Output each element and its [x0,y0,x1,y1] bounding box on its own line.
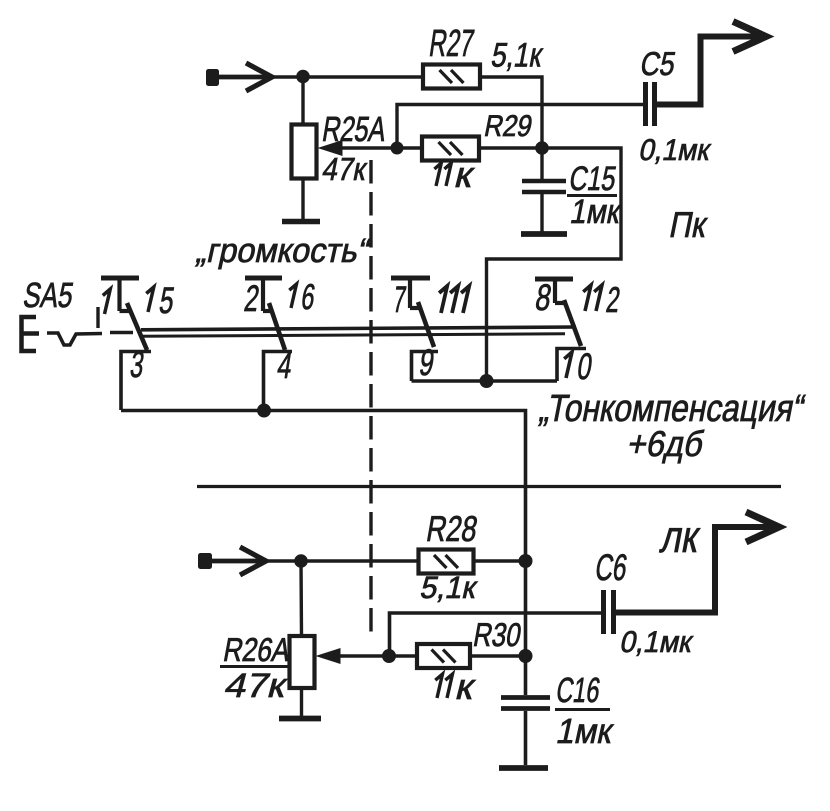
wire C15 bottom [540,194,543,232]
mechanical link dash (to contact 1) [96,307,99,328]
node R28/vertical bus junction [519,554,533,568]
node R27/R29/C15 junction [535,141,549,155]
separator line between channels [197,485,781,488]
svg-text:C6: C6 [593,546,630,588]
wire C6 right, up, to output [616,527,779,613]
wire input to junction (left) [204,559,266,564]
wire R26A top (junction to pot) [299,561,303,636]
ground (R26A) [279,716,321,722]
label 10 [564,352,572,378]
node junction input/R25A/R27 [296,70,310,84]
capacitor C5 [646,82,655,126]
svg-text:1мк: 1мк [553,712,617,751]
svg-text:+6дб: +6дб [624,425,707,464]
wire C5 right, up, to output [657,37,766,105]
input arrow (left channel) [240,547,266,575]
wire R25A bottom to ground [301,178,304,220]
wire wiper to junction (left) [339,654,389,657]
wire step terminal 4 [264,352,293,411]
capacitor C6 [604,590,614,634]
wire step terminal 3 [121,352,151,411]
capacitor C16 [501,698,550,709]
svg-text:47к: 47к [221,667,292,705]
node R30/vertical bus junction [519,649,533,663]
label underline C15 [567,194,617,197]
wire C16 bottom [524,711,528,765]
wire loop from node to switch contact 8 branch [487,148,622,381]
switch SA5 actuator symbol [22,317,134,351]
capacitor C15 [522,181,566,192]
wire bottom bus contacts 9-10 [412,379,558,383]
switch contact 1 (fixed) [101,278,139,311]
svg-text:R27: R27 [427,22,477,65]
wire R25A top (junction to pot) [301,77,304,125]
svg-text:R28: R28 [424,509,481,549]
wire R27 right, corner down to R29 node [480,77,542,148]
label 1 [103,289,111,314]
output arrow (left channel) [746,512,779,542]
wire junction to R28 [301,559,419,562]
label 15 [146,287,154,312]
wire R30 right to node [470,654,526,657]
svg-text:C16: C16 [554,672,603,710]
svg-text:C5: C5 [638,47,679,83]
svg-text:1мк: 1мк [568,192,625,230]
svg-text:47к: 47к [320,153,371,188]
label 11k (R30 value) [435,674,442,698]
switch contact 2 (fixed) [245,278,282,311]
svg-text:R30: R30 [471,617,525,653]
label 111 [439,286,447,313]
potentiometer R26A [290,636,315,688]
svg-text:R25A: R25A [320,109,390,149]
switch contact 2 blade [269,303,285,350]
resistor R27 [423,65,480,89]
output arrow (right channel) [733,22,766,52]
svg-text:5,1к: 5,1к [489,36,546,74]
svg-text:R29: R29 [482,108,536,142]
wire input to junction [212,75,272,80]
resistor R30 [417,644,470,668]
switch contact 7 blade [418,302,434,347]
label 112 [583,285,591,311]
wire rail upper (switch common) [141,327,576,330]
wire junction up and right to C6 [390,613,602,656]
wire vertical bus down to C16 [524,561,528,695]
ground (C15) [521,231,567,237]
dashed gang line (stereo pot coupling) [369,160,372,640]
label 16 [289,284,296,308]
wire node to C15 [540,148,543,179]
potentiometer R25A [292,125,317,179]
R25A wiper arrow [318,140,343,156]
ground (R25A) [282,219,320,225]
svg-text:0,1мк: 0,1мк [636,133,713,167]
wire step terminal 9 [412,352,439,382]
node junction input/R26A/R28 [294,554,308,568]
svg-text:SA5: SA5 [21,275,77,314]
node junction contact branch / loop [480,374,494,388]
resistor R29 [422,137,479,161]
wire bottom bus contacts 3-4 down to lower channel [121,411,526,562]
wire junction up and right to C5 [397,105,643,149]
wire R28 right to node [474,559,526,562]
resistor R28 [419,550,474,574]
switch contact 7 (fixed) [391,278,430,308]
R26A wiper arrow [316,648,341,664]
switch contact 8 blade [564,300,581,346]
node wiper junction [391,142,404,155]
wire junction to R29 [397,146,423,149]
wire junction to R27 [303,75,424,78]
label underline R26A [220,665,290,668]
switch contact 1 blade [127,303,147,350]
svg-text:5,1к: 5,1к [417,570,480,605]
svg-text:„громкость“: „громкость“ [193,233,373,270]
ground (C16) [499,765,548,771]
wire rail lower (switch common) [140,334,565,337]
label 11k (R29 value) [434,163,441,186]
svg-text:„Тонкомпенсация“: „Тонкомпенсация“ [536,387,808,430]
svg-text:0,1мк: 0,1мк [617,626,696,660]
wire step terminal 10 [557,349,586,382]
wire junction to R30 [389,654,417,657]
node input-left-channel terminal dot [198,553,212,569]
input arrow (right channel) [246,63,272,91]
node junction contact 4 [257,404,271,418]
node input-right-channel terminal dot [206,69,219,86]
wire R26A bottom to ground [300,688,303,716]
wire R29 right to node [479,146,542,149]
wire wiper to junction [341,146,397,149]
node wiper junction (left) [382,649,396,663]
switch contact 8 (fixed) [535,279,573,303]
svg-text:R26A: R26A [221,633,294,669]
label underline C16 [555,708,610,711]
